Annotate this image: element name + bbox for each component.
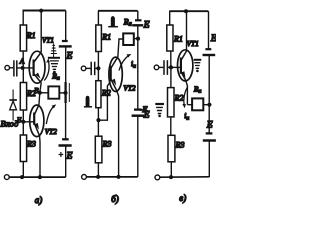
wire terminal to cap b xyxy=(86,67,91,69)
wire terminal to capacitor xyxy=(10,67,14,69)
terminal input b xyxy=(81,66,86,71)
resistor R1 v xyxy=(167,25,173,51)
node dot bottom R3 v xyxy=(169,175,173,179)
node dot bottom R3 xyxy=(20,175,24,179)
ground symbol v1 bar xyxy=(194,59,202,61)
resistor R1 xyxy=(20,25,26,51)
diode input triangle xyxy=(10,101,17,110)
wire VT2 emitter down xyxy=(39,136,41,177)
wire right rail v bottom xyxy=(208,141,210,178)
battery E2 b long plate xyxy=(132,114,144,117)
svg-text:R1: R1 xyxy=(26,31,36,40)
transistor VT2 a body xyxy=(30,105,44,137)
pulse symbol mid b pulse xyxy=(86,96,90,107)
resistor Rn load box a xyxy=(48,86,59,98)
terminal bottom v xyxy=(155,175,160,180)
svg-text:VT1: VT1 xyxy=(42,37,54,45)
wire base node to R2 v xyxy=(170,67,172,87)
ground symbol a taper xyxy=(50,61,59,69)
wire bottom rail b xyxy=(86,176,137,178)
transistor VT1 v collector line xyxy=(181,50,187,60)
resistor R1 b xyxy=(96,25,102,52)
node junction dot collector VT1 top rail xyxy=(39,9,43,13)
node input dot v xyxy=(169,65,173,69)
label plus bottom a xyxy=(59,152,64,157)
svg-text:R1: R1 xyxy=(173,35,183,44)
wire R1 bottom lead to node A xyxy=(22,51,24,68)
svg-text:E: E xyxy=(210,34,216,44)
battery E bottom a long plate xyxy=(59,144,72,147)
svg-text:Rн: Rн xyxy=(51,72,60,82)
wire right rail b below battery xyxy=(137,25,139,109)
wire right rail lower a xyxy=(65,103,67,139)
diode input bar xyxy=(9,99,17,101)
transistor VT1 v emitter line xyxy=(181,72,186,81)
svg-text:E: E xyxy=(206,121,213,131)
wire bottom rail v xyxy=(160,176,210,178)
wire VT2 collector up to node xyxy=(38,93,41,106)
wire R3 bottom lead xyxy=(22,162,24,178)
terminal input v xyxy=(154,65,159,70)
wire right rail b upper xyxy=(137,11,139,20)
pulse symbol top b pulse xyxy=(111,16,115,27)
ground symbol v2 tip xyxy=(158,115,161,118)
node base dot b xyxy=(96,118,100,122)
node A dot xyxy=(21,66,25,70)
resistor R2 b xyxy=(96,81,101,108)
transistor VT1 body xyxy=(29,51,45,83)
capacitor C1 plate 1 xyxy=(13,60,15,76)
current arrow head VT2 a xyxy=(52,104,57,108)
current arrow curved b xyxy=(119,55,129,70)
resistor R3 v xyxy=(168,135,175,162)
wire collector v up xyxy=(186,11,188,50)
current arrow head b xyxy=(127,54,132,58)
svg-text:Rн: Rн xyxy=(123,17,132,27)
wire node B to base VT2 xyxy=(23,121,34,123)
diode input lead bottom xyxy=(12,110,14,120)
node dot right rail a xyxy=(63,91,67,95)
node dot Rn b xyxy=(136,37,140,41)
svg-text:Rн: Rн xyxy=(193,85,202,95)
node dot bottom R3 b xyxy=(96,175,100,179)
node dot bottom emitter b xyxy=(117,175,121,179)
wire R2 b bottom lead xyxy=(97,108,99,120)
wire Rn right lead b xyxy=(134,38,138,40)
svg-text:R3: R3 xyxy=(175,141,185,150)
svg-text:R3: R3 xyxy=(102,140,112,149)
node B dot a xyxy=(21,120,25,124)
transistor VT1 v base bar xyxy=(180,58,182,74)
wire cap to base v xyxy=(168,66,181,68)
transistor VT2 b emitter arrow xyxy=(112,79,116,86)
resistor Rn box v xyxy=(192,98,203,110)
wire node to Rn box xyxy=(40,92,49,94)
current arrow curved v xyxy=(184,87,188,106)
battery E bottom v short plate xyxy=(206,132,213,134)
pulse symbol top b baseline xyxy=(108,26,118,28)
svg-text:а): а) xyxy=(35,195,43,205)
current arrow head v xyxy=(182,104,186,108)
capacitor v plate 1 xyxy=(163,60,165,75)
ground symbol v1 tip xyxy=(196,70,199,73)
ground symbol a tip xyxy=(53,71,56,74)
svg-text:R2: R2 xyxy=(26,89,36,98)
wire R2 to R3 v xyxy=(170,117,172,135)
wire R1 b top lead xyxy=(97,11,99,25)
ground symbol v2 bar xyxy=(155,103,164,105)
wire top rail a xyxy=(23,10,66,12)
svg-text:А: А xyxy=(19,57,25,66)
node dot bottom VT2 emitter xyxy=(38,175,42,179)
ground symbol a wire xyxy=(53,44,55,58)
diode input arrow lead top xyxy=(12,90,14,100)
svg-text:R3: R3 xyxy=(26,140,36,149)
wire right rail b lower xyxy=(137,116,139,177)
svg-text:E: E xyxy=(66,52,73,62)
wire emitter b down xyxy=(117,91,119,177)
wire right rail v mid xyxy=(208,55,210,133)
node output dot a xyxy=(38,91,42,95)
wire bottom rail a xyxy=(9,176,66,178)
terminal input a xyxy=(5,65,10,70)
transistor VT1 v emitter arrow xyxy=(182,71,186,78)
transistor VT1 base bar xyxy=(32,60,34,77)
plate thick segment right rail a xyxy=(64,82,66,103)
transistor VT1 emitter arrow head xyxy=(35,73,40,79)
svg-text:iн: iн xyxy=(131,59,136,70)
wire terminal to cap v xyxy=(159,66,164,68)
node dot top rail v xyxy=(184,9,188,13)
stray plate line a xyxy=(68,83,70,102)
transistor VT2 a base bar xyxy=(33,113,35,125)
wire R3 b bottom lead xyxy=(97,163,99,177)
capacitor C1 plate 2 xyxy=(16,60,18,76)
current arrow curved VT2 a xyxy=(46,107,53,125)
resistor Rn box b xyxy=(123,33,134,45)
svg-text:R1: R1 xyxy=(101,33,111,42)
wire R1 v top lead xyxy=(169,11,171,25)
pulse symbol mid b baseline xyxy=(84,106,92,108)
wire VT1 emitter down to node xyxy=(40,83,41,93)
terminal bottom b xyxy=(82,175,87,180)
transistor VT2 a emitter line xyxy=(34,123,39,136)
battery E bottom a short plate xyxy=(62,138,69,140)
battery E1 b long plate xyxy=(132,24,143,26)
resistor R3 a xyxy=(20,135,26,162)
wire R3 b top lead xyxy=(97,122,99,136)
wire R3 v bottom lead xyxy=(170,162,172,177)
wire top rail b xyxy=(98,10,138,12)
transistor VT2 a emitter arrow xyxy=(35,123,39,130)
ground symbol a upper ticks xyxy=(51,45,57,53)
ground symbol v2 taper xyxy=(156,107,163,113)
svg-text:E: E xyxy=(143,21,150,31)
wire top rail v xyxy=(169,10,208,12)
wire right rail mid a xyxy=(65,46,67,82)
svg-text:VT1: VT1 xyxy=(187,39,199,48)
transistor VT2 b collector line xyxy=(111,58,117,68)
svg-text:в): в) xyxy=(179,193,186,203)
svg-text:VT2: VT2 xyxy=(45,127,58,136)
transistor VT1 emitter line with arrow xyxy=(34,74,42,83)
battery E top v long plate xyxy=(203,54,216,56)
wire R1 top lead xyxy=(22,11,24,26)
svg-text:Вход: Вход xyxy=(1,119,20,129)
wire VT1 collector up xyxy=(40,11,42,53)
current arrow head a xyxy=(46,58,50,62)
current arrow curved a xyxy=(44,61,49,81)
battery E top a short plate xyxy=(62,40,68,42)
svg-text:E: E xyxy=(66,152,73,162)
wire right rail top a xyxy=(65,11,67,41)
wire right rail v top xyxy=(208,11,210,49)
terminal bottom a xyxy=(4,175,9,180)
resistor R3 b xyxy=(95,136,102,163)
battery E1 b short plate xyxy=(135,19,142,21)
wire node A to R2 xyxy=(22,68,24,83)
svg-text:iн: iн xyxy=(184,111,189,122)
capacitor v plate 2 xyxy=(166,60,168,75)
transistor VT2 b emitter line xyxy=(111,79,117,91)
transistor VT2 b base bar xyxy=(110,66,112,82)
svg-text:б): б) xyxy=(111,194,119,204)
battery E2 b short plate xyxy=(134,108,141,110)
svg-text:R2: R2 xyxy=(174,94,184,103)
resistor R2 a xyxy=(20,83,26,111)
wire R1 v bottom lead xyxy=(170,51,172,67)
wire base link b xyxy=(99,82,111,121)
resistor R2 v xyxy=(168,88,175,117)
wire R1 b bottom lead xyxy=(97,52,99,81)
transistor VT2 b body xyxy=(109,57,122,91)
node dot right rail v xyxy=(207,103,211,107)
transistor VT2 a collector line xyxy=(34,105,39,115)
battery E top v short plate xyxy=(205,48,211,50)
transistor VT1 collector line xyxy=(34,52,42,62)
wire emitter to Rn v xyxy=(187,104,192,106)
wire battery to bottom rail a xyxy=(65,146,67,178)
wire Rn left lead b xyxy=(118,39,123,58)
svg-text:-E: -E xyxy=(140,105,148,114)
battery E top a long plate xyxy=(59,45,72,47)
wire Rn box to right rail xyxy=(59,92,65,94)
svg-text:VT2: VT2 xyxy=(123,83,136,92)
battery E bottom v long plate xyxy=(203,139,216,142)
wire cap to node b xyxy=(95,67,98,69)
capacitor b plate 2 xyxy=(94,62,96,75)
ground symbol a bar xyxy=(48,57,60,59)
wire R2 to node B xyxy=(22,110,24,135)
capacitor b plate 1 xyxy=(90,62,92,75)
ground symbol v1 taper xyxy=(194,63,200,69)
wire capacitor to base VT1 xyxy=(17,67,33,69)
wire emitter v down xyxy=(186,81,188,105)
transistor VT1 v body xyxy=(178,50,193,81)
wire Rn v right lead xyxy=(203,104,209,106)
node input dot b xyxy=(96,66,100,70)
svg-text:R2: R2 xyxy=(101,89,111,98)
